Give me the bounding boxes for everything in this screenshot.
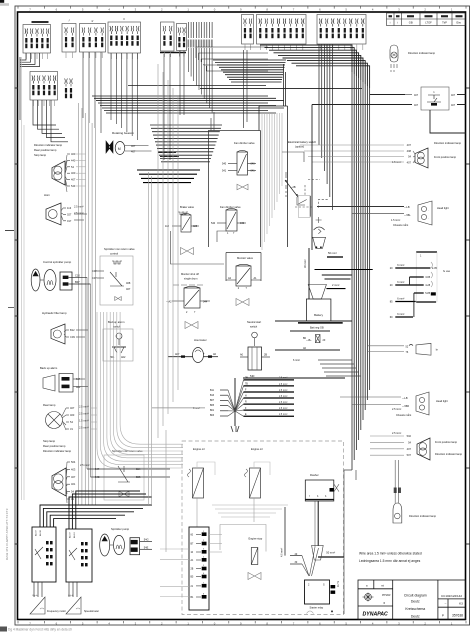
relay module K1 — [32, 527, 56, 582]
4mm2 riser — [281, 507, 286, 557]
lamp bottom right pins — [407, 434, 412, 457]
svg-text:A5.08: A5.08 — [39, 530, 42, 537]
svg-text:Sprinkler non return valve: Sprinkler non return valve — [104, 247, 135, 251]
svg-text:—LB: —LB — [402, 397, 408, 400]
svg-text:fu use: fu use — [443, 269, 451, 273]
hydraulic filter lamp labels — [66, 328, 75, 339]
svg-text:Rear position lamp: Rear position lamp — [34, 148, 57, 152]
monitor shut off valve — [166, 285, 210, 314]
svg-text:B07: B07 — [75, 280, 80, 284]
direction indicator bulb bottom — [393, 460, 437, 523]
svg-text:407: 407 — [414, 104, 419, 107]
heavy bar below X6 — [160, 52, 186, 54]
svg-text:1.5 mm²: 1.5 mm² — [392, 161, 401, 164]
svg-text:540: 540 — [211, 222, 216, 225]
svg-text:B07: B07 — [210, 400, 215, 402]
svg-text:C09: C09 — [70, 335, 75, 339]
svg-text:Dg 4 Maskiner dyn Forst Hits d: Dg 4 Maskiner dyn Forst Hits dirty en de… — [8, 628, 73, 632]
bowtie monitor shutoff — [185, 322, 198, 329]
svg-text:B01: B01 — [210, 410, 215, 412]
starter V wires — [290, 547, 319, 576]
starter funnel — [312, 545, 324, 560]
K2 wires + speedometer triangle — [66, 582, 99, 614]
rear lamp round — [46, 412, 63, 429]
hydraulic filter lamp — [51, 324, 65, 344]
horn wire — [74, 213, 87, 215]
svg-text:DZ32 4T2 IV-GPPT ATSD 2TT-T4 C: DZ32 4T2 IV-GPPT ATSD 2TT-T4 CTZ — [5, 508, 9, 560]
backup alarm switch — [103, 329, 133, 361]
battery funnel — [308, 285, 326, 300]
svg-text:Ledningsarea 1.5 mm² där annat: Ledningsarea 1.5 mm² där annat ej anges — [359, 559, 421, 563]
svg-text:2.5 mm²: 2.5 mm² — [79, 426, 89, 430]
svg-text:54F: 54F — [71, 184, 76, 188]
svg-text:Direction indicator lamp: Direction indicator lamp — [34, 143, 63, 147]
engine oil sensor 2 — [245, 462, 271, 522]
alarm horn right mid — [368, 343, 438, 355]
ground star distribution node — [152, 378, 235, 426]
ground symbol star — [231, 426, 239, 432]
svg-text:Speedometer: Speedometer — [84, 610, 99, 613]
svg-text:Rear position lamp: Rear position lamp — [43, 444, 66, 448]
svg-text:K3: K3 — [459, 602, 463, 606]
svg-text:CC102/122/142: CC102/122/142 — [441, 594, 462, 598]
fuse feed wires — [390, 264, 438, 319]
svg-text:4.0 mm²: 4.0 mm² — [281, 548, 284, 557]
head light right — [317, 201, 432, 227]
svg-text:Brake valve: Brake valve — [180, 205, 195, 209]
bowtie monitor valve — [236, 299, 249, 306]
svg-text:Front position lamp: Front position lamp — [434, 155, 457, 159]
svg-text:1.5 mm²: 1.5 mm² — [79, 419, 89, 423]
revision table top right — [387, 13, 466, 26]
X8 drops — [244, 50, 248, 128]
svg-text:517: 517 — [76, 378, 81, 381]
svg-text:400: 400 — [71, 152, 76, 156]
relay top right long wires — [312, 95, 466, 251]
sprinkler pump bottom — [100, 534, 152, 556]
connector X3 — [62, 19, 76, 59]
lamp right front wires — [300, 145, 404, 162]
staircase SC2 — [196, 47, 268, 71]
svg-text:54F: 54F — [95, 468, 100, 471]
brake valve — [165, 212, 199, 232]
right wires neutral area — [275, 321, 352, 350]
lamp bottom left — [52, 468, 66, 496]
svg-text:O/y-b: O/y-b — [68, 595, 74, 597]
engine oil sensor 1 — [188, 462, 216, 527]
title block revision cell — [363, 583, 391, 605]
wire drops from X6 X7 comb — [164, 48, 212, 160]
svg-text:Deutz: Deutz — [411, 600, 420, 604]
svg-text:403: 403 — [70, 413, 75, 417]
K1 wires + frequency motor triangle — [30, 582, 66, 614]
svg-text:·: · — [428, 208, 429, 212]
svg-text:GB: GB — [409, 20, 413, 24]
connector X3b pins — [65, 79, 73, 99]
svg-text:027: 027 — [67, 212, 72, 216]
svg-text:5-85: 5-85 — [425, 292, 431, 295]
svg-text:408: 408 — [407, 149, 412, 153]
wire drops X2 to left loop bends — [33, 100, 68, 142]
bowtie engine stop — [248, 573, 261, 580]
sprinkler non return valve bottom — [87, 455, 170, 500]
svg-text:br: br — [436, 349, 438, 352]
svg-text:Engine oil: Engine oil — [193, 447, 205, 451]
bottom wire risers left — [40, 491, 152, 529]
svg-text:507: 507 — [407, 453, 412, 457]
X10 drops — [319, 44, 333, 210]
alternator funnel — [313, 227, 326, 248]
svg-text:2.5 mm²: 2.5 mm² — [279, 395, 288, 398]
engine stop enclosure — [220, 525, 266, 552]
svg-text:PPSKR: PPSKR — [382, 594, 391, 597]
30mm2 vertical wire — [308, 248, 310, 299]
svg-text:Frequency motor: Frequency motor — [47, 610, 66, 613]
horizontal bundle B1 wedge — [150, 125, 222, 162]
fuse box — [416, 252, 450, 302]
svg-text:A5.10: A5.10 — [73, 532, 76, 539]
svg-text:2F: 2F — [323, 339, 326, 342]
svg-text:440: 440 — [71, 158, 76, 162]
svg-text:switch: switch — [250, 325, 258, 329]
svg-text:54E: 54E — [144, 546, 149, 549]
svg-text:407: 407 — [71, 178, 76, 182]
svg-text:B05: B05 — [136, 476, 141, 479]
svg-text:—A2: —A2 — [166, 300, 172, 303]
svg-text:single drum: single drum — [184, 277, 197, 281]
left grey vertical bundle — [79, 103, 96, 505]
svg-text:113: 113 — [67, 206, 72, 210]
title block — [358, 580, 466, 620]
svg-text:P: P — [442, 614, 444, 618]
svg-text:4-28: 4-28 — [425, 284, 431, 287]
svg-text:403: 403 — [71, 467, 76, 471]
main vertical trunk bundle — [352, 72, 370, 470]
svg-text:407: 407 — [414, 94, 419, 97]
svg-text:C07: C07 — [92, 276, 97, 280]
svg-text:6 mm²: 6 mm² — [397, 264, 404, 267]
svg-text:mi: mi — [381, 583, 384, 587]
svg-text:400: 400 — [71, 171, 76, 175]
enclosure feed verticals — [210, 118, 212, 131]
svg-text:Stop lamp: Stop lamp — [43, 439, 56, 443]
svg-text:3-65: 3-65 — [425, 276, 431, 279]
svg-text:407: 407 — [71, 475, 76, 479]
svg-text:Engine stop: Engine stop — [249, 537, 263, 541]
lamp bottom right — [417, 438, 430, 460]
wire drops X1 to left loop — [20, 53, 40, 120]
battery — [298, 299, 343, 329]
svg-text:407: 407 — [451, 104, 456, 107]
svg-text:B+ 50: B+ 50 — [336, 581, 338, 588]
svg-text:Deutz: Deutz — [411, 615, 420, 619]
thick 50mm2 wire — [318, 556, 344, 558]
svg-text:2.5 mm²: 2.5 mm² — [279, 383, 288, 386]
svg-text:B01: B01 — [110, 356, 115, 359]
svg-text:407: 407 — [451, 94, 456, 97]
long wire to fuse — [315, 269, 373, 271]
battery switch dashed wiring — [295, 180, 328, 234]
margin dash marks left — [5, 230, 14, 232]
svg-text:2.5 mm²: 2.5 mm² — [79, 405, 89, 409]
svg-text:B03: B03 — [210, 415, 215, 417]
svg-text:2-05: 2-05 — [432, 267, 438, 270]
rear lamp pin labels — [66, 405, 89, 432]
svg-text:Flasher: Flasher — [310, 473, 319, 477]
svg-text:Starter relay: Starter relay — [310, 607, 324, 610]
engine stop solenoid — [251, 548, 257, 565]
svg-text:TkP: TkP — [442, 20, 447, 24]
svg-text:2B: 2B — [191, 569, 194, 571]
horn pin labels — [63, 205, 84, 223]
svg-text:017: 017 — [67, 219, 72, 223]
connector X10 — [317, 15, 366, 51]
svg-text:—LB: —LB — [404, 206, 410, 209]
svg-text:Monitor shut off: Monitor shut off — [181, 272, 199, 276]
svg-text:54D: 54D — [95, 476, 100, 479]
svg-text:407: 407 — [126, 287, 131, 291]
svg-text:401: 401 — [71, 482, 76, 486]
frame side ticks — [15, 88, 471, 544]
fan dimmer valve 1 — [222, 150, 256, 175]
lamp right front pins — [407, 143, 412, 164]
svg-text:1.5 mm²: 1.5 mm² — [391, 219, 400, 222]
monitor valve — [226, 253, 261, 291]
svg-text:540: 540 — [222, 163, 227, 166]
vertical drop hatch into enclosure — [262, 113, 282, 250]
svg-text:C08: C08 — [92, 269, 97, 273]
enclosure internal feed wires — [212, 505, 288, 517]
lamp bottom left pins — [67, 460, 90, 501]
horn — [46, 203, 61, 225]
svg-text:Direction indicator lamp: Direction indicator lamp — [43, 449, 72, 453]
svg-text:357638: 357638 — [452, 614, 463, 618]
bowtie below valve2 — [181, 248, 194, 255]
electrical battery switch — [282, 152, 305, 205]
svg-text:7B: 7B — [245, 384, 248, 386]
svg-text:407: 407 — [407, 160, 412, 164]
svg-text:2.5 mm²: 2.5 mm² — [79, 412, 89, 416]
svg-text:407: 407 — [70, 406, 75, 410]
svg-text:504: 504 — [71, 460, 76, 464]
svg-text:A5.07: A5.07 — [69, 532, 72, 539]
svg-text:50 mm²: 50 mm² — [326, 551, 335, 555]
left margin long verticals — [22, 57, 25, 500]
dark bundle B2 — [137, 170, 200, 183]
staircase SC1 — [213, 60, 286, 82]
batt small relay — [306, 335, 326, 343]
wire drops from X4/X5 — [83, 52, 138, 140]
footer blur text bottom-left — [0, 627, 7, 632]
svg-text:407: 407 — [407, 447, 412, 451]
connector X1 — [23, 25, 51, 60]
svg-text:Circuit diagram: Circuit diagram — [404, 593, 427, 597]
svg-text:041: 041 — [251, 170, 256, 173]
lamp right front — [415, 148, 428, 168]
mid grey verticals — [149, 64, 179, 552]
svg-text:30 mm²: 30 mm² — [303, 259, 307, 268]
connector X4 — [80, 19, 106, 59]
wire loop lower enclosure — [171, 231, 227, 264]
connector X5 — [108, 17, 141, 59]
svg-text:A07: A07 — [175, 353, 180, 356]
svg-text:502: 502 — [407, 434, 412, 438]
svg-text:541: 541 — [222, 170, 227, 173]
connector X9 — [257, 15, 307, 51]
lamp cluster stubs to bundle — [76, 154, 86, 186]
svg-text:—58R: —58R — [402, 405, 409, 408]
svg-text:6 mm²: 6 mm² — [293, 359, 300, 362]
svg-text:2.5 mm²: 2.5 mm² — [279, 401, 288, 404]
staircase SC3 X9 to trunk — [260, 45, 370, 88]
50mm2 cable from battery to starter — [317, 501, 319, 546]
svg-text:Direction indicator lamp: Direction indicator lamp — [408, 51, 436, 55]
svg-text:Wire area 1.5 mm² unless other: Wire area 1.5 mm² unless otherwise state… — [359, 552, 422, 556]
svg-text:Hydraulic filter lamp: Hydraulic filter lamp — [42, 311, 67, 315]
title text — [404, 593, 427, 618]
svg-text:O/y-b: O/y-b — [32, 595, 38, 597]
bowtie under fan valve 1 — [237, 184, 248, 190]
svg-text:407: 407 — [131, 150, 136, 154]
svg-text:Neutral start: Neutral start — [247, 320, 261, 324]
svg-text:—2B: —2B — [290, 186, 296, 189]
svg-text:6 mm²: 6 mm² — [397, 298, 404, 301]
terminal comb strip — [189, 22, 213, 38]
svg-text:M: M — [118, 147, 121, 151]
heavy bar above connector X1 — [32, 21, 49, 23]
back up alarm — [43, 374, 88, 393]
connector X2 — [30, 72, 58, 107]
svg-text:Horn: Horn — [44, 193, 50, 197]
svg-text:A02: A02 — [121, 356, 126, 359]
svg-text:Batt neg GB: Batt neg GB — [310, 326, 324, 329]
svg-text:Kretsschema: Kretsschema — [405, 607, 425, 611]
connector X7 — [177, 24, 187, 57]
svg-text:Head light: Head light — [437, 206, 449, 210]
svg-text:—B+: —B+ — [306, 339, 312, 342]
svg-text:Monitor valve: Monitor valve — [237, 256, 253, 260]
svg-text:B13: B13 — [210, 395, 215, 397]
svg-text:2.5 mm²: 2.5 mm² — [392, 432, 401, 435]
svg-text:2.5 mm²: 2.5 mm² — [392, 408, 401, 411]
relay top right — [405, 87, 465, 110]
svg-text:Engine oil: Engine oil — [251, 447, 263, 451]
svg-text:54D: 54D — [250, 375, 255, 378]
svg-text:control: control — [110, 252, 118, 256]
star right thick wires — [235, 375, 345, 416]
svg-text:Direction indicator lamp: Direction indicator lamp — [434, 141, 462, 145]
sprinkler non return valve control — [92, 256, 133, 305]
svg-text:6 mm²: 6 mm² — [397, 313, 404, 316]
svg-text:2.5 mm²: 2.5 mm² — [279, 389, 288, 392]
svg-text:044: 044 — [203, 300, 208, 303]
starter relay — [305, 580, 339, 614]
svg-text:Back up alarm: Back up alarm — [40, 366, 58, 370]
svg-text:B04: B04 — [136, 468, 141, 471]
svg-text:Control sprinkler pump: Control sprinkler pump — [43, 260, 72, 264]
svg-text:Eiw: Eiw — [457, 20, 461, 24]
svg-text:C10: C10 — [75, 273, 80, 277]
svg-text:2.5 mm²: 2.5 mm² — [279, 407, 288, 410]
svg-text:Head light: Head light — [436, 399, 448, 403]
right side wire turnouts — [318, 360, 361, 614]
engine dashed enclosure — [182, 441, 344, 615]
svg-text:Direction indicator lamp: Direction indicator lamp — [409, 514, 437, 518]
corner mark top-left — [0, 0, 4, 3]
svg-text:408: 408 — [126, 281, 131, 285]
svg-text:·: · — [428, 216, 429, 220]
rotating beacon — [106, 141, 152, 155]
lamp left rear — [52, 161, 65, 185]
lamp left rear pin labels — [67, 152, 76, 188]
svg-text:Fan dimber valve: Fan dimber valve — [234, 141, 255, 145]
nested wire loops bottom left — [97, 312, 183, 468]
second flasher drop — [314, 501, 316, 547]
svg-text:Battery: Battery — [314, 313, 323, 317]
svg-text:2 mm²: 2 mm² — [332, 283, 339, 287]
direction indicator lamp top right bulb — [390, 45, 436, 72]
svg-text:Stop lamp: Stop lamp — [34, 153, 47, 157]
svg-text:6 mm²: 6 mm² — [397, 281, 404, 284]
svg-text:040: 040 — [251, 163, 256, 166]
head light bottom right — [340, 392, 429, 417]
big enclosure around fan valves — [209, 131, 261, 248]
connector X8 — [242, 15, 254, 51]
svg-text:028: 028 — [193, 225, 198, 228]
svg-text:407: 407 — [407, 143, 412, 147]
relay module K2 — [66, 529, 92, 582]
terminal strip box bottom — [189, 527, 209, 610]
svg-text:DYNAPAC: DYNAPAC — [363, 612, 389, 618]
svg-text:B12: B12 — [70, 328, 75, 332]
svg-text:50 mm²: 50 mm² — [328, 251, 337, 255]
svg-text:LTOF: LTOF — [425, 20, 432, 24]
svg-text:Rotating beacon: Rotating beacon — [112, 131, 134, 135]
svg-text:6 mm²: 6 mm² — [193, 407, 200, 410]
cross ties X6 drops — [158, 152, 176, 154]
hourmeter — [168, 348, 218, 363]
flasher relay box above — [305, 480, 339, 501]
svg-text:Chassis månt: Chassis månt — [393, 224, 408, 227]
svg-text:112: 112 — [165, 225, 170, 228]
svg-text:407: 407 — [131, 144, 136, 148]
upper box to enclosure — [259, 64, 288, 247]
svg-text:Direction indicator lamp: Direction indicator lamp — [435, 452, 463, 456]
fan dimmer valve 2 — [211, 208, 246, 235]
svg-text:—58L: —58L — [404, 214, 411, 217]
svg-text:2B: 2B — [264, 354, 267, 357]
svg-text:B05: B05 — [210, 405, 215, 407]
svg-text:2.5 mm²: 2.5 mm² — [80, 463, 90, 467]
neutral start switch — [240, 332, 270, 370]
svg-text:2.5 mm²: 2.5 mm² — [74, 205, 84, 209]
connector X6 — [161, 22, 175, 57]
svg-text:Sprinkler pump: Sprinkler pump — [111, 527, 130, 531]
svg-text:54G: 54G — [144, 539, 149, 542]
svg-text:040: 040 — [240, 222, 245, 225]
svg-text:Chassis månt: Chassis månt — [396, 414, 411, 417]
svg-text:2.5 mm²: 2.5 mm² — [279, 413, 288, 416]
svg-text:Hourmeter: Hourmeter — [194, 338, 207, 342]
svg-text:Front position lamp: Front position lamp — [435, 440, 458, 444]
control sprinkler pump — [31, 269, 90, 477]
svg-text:A5.07: A5.07 — [35, 530, 38, 537]
long bus lines mid — [92, 86, 362, 114]
terminal strip feed wires grey — [160, 534, 222, 596]
svg-text:Rear lamp: Rear lamp — [43, 403, 56, 407]
